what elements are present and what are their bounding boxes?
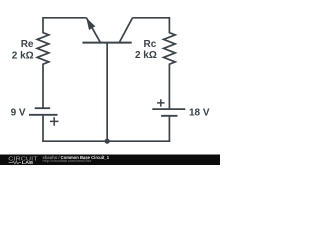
svg-text:LAB: LAB (22, 160, 34, 165)
battery V1 plus sign (50, 117, 59, 126)
footer logo wire (9, 162, 21, 164)
battery V2 negative short plate (161, 115, 177, 117)
svg-text:Rc: Rc (144, 39, 157, 50)
svg-text:2 kΩ: 2 kΩ (135, 50, 157, 61)
transistor Q1 collector line (119, 18, 132, 43)
resistor R_E (Re 2k, zigzag with leads) (37, 17, 49, 108)
wire V1 bottom lead (42, 115, 44, 141)
battery V2 plus sign (157, 99, 164, 106)
resistor R_C (Rc 2k, zigzag with leads) (164, 17, 176, 109)
wire base to ground rail (106, 43, 108, 142)
wire top-right (collector to Rc) (133, 17, 170, 19)
transistor Q1 emitter arrowhead (86, 18, 95, 30)
svg-text:Re: Re (21, 39, 34, 50)
wire bottom rail (42, 140, 170, 142)
battery V2 positive long plate (152, 108, 185, 110)
wire V2 bottom lead (168, 116, 170, 141)
wire top-left (Re top to emitter) (43, 17, 86, 19)
svg-text:2 kΩ: 2 kΩ (12, 51, 34, 62)
junction dot at base-rail node (105, 139, 110, 144)
transistor Q1 base bar (82, 42, 131, 44)
svg-text:http://circuitlab.com/cme29kx: http://circuitlab.com/cme29kx (43, 159, 92, 163)
footer logo resistor squiggle (12, 161, 18, 164)
battery V1 negative short plate (35, 107, 50, 109)
footer bar (0, 155, 220, 166)
battery V1 positive long plate (29, 114, 58, 116)
svg-text:9 V: 9 V (11, 107, 26, 118)
svg-text:18 V: 18 V (189, 108, 210, 119)
transistor Q1 emitter line (86, 18, 100, 43)
